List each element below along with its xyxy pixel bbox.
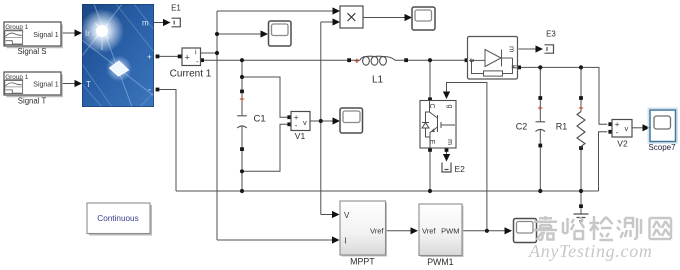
capacitor C2 [536, 122, 546, 132]
wire V1 node vertical [320, 22, 322, 215]
port Current1 - [200, 58, 204, 62]
wire ground stem [580, 191, 582, 214]
voltage sensor V1 [291, 112, 310, 142]
port PV + [156, 55, 160, 59]
svg-text:m: m [446, 139, 453, 145]
svg-text:PWM1: PWM1 [427, 257, 453, 267]
port PV - [156, 88, 160, 92]
node C2 top [538, 65, 542, 69]
node V1 minus tee [240, 169, 244, 173]
port V1 - [287, 122, 291, 126]
signal builder Signal S [4, 22, 62, 56]
powergui Continuous [87, 203, 152, 236]
svg-text:E3: E3 [546, 30, 556, 39]
arrow into scope2 [405, 14, 413, 21]
arrow into PV Ir [75, 29, 83, 36]
wire PWM1 out to scope4 [462, 230, 506, 232]
svg-text:Continuous: Continuous [97, 214, 138, 223]
port R1 top [579, 96, 583, 100]
svg-text:k: k [509, 65, 516, 69]
svg-text:Signal 1: Signal 1 [33, 32, 58, 39]
wire IGBT m to E2 [446, 150, 448, 156]
char jian [590, 216, 614, 240]
product block [340, 6, 363, 28]
arrow into Scope7 [643, 124, 651, 131]
wire C1 bottom to rail [241, 151, 243, 191]
capacitor C1 [237, 116, 247, 128]
char wang [650, 218, 672, 239]
port V2 + [608, 122, 612, 126]
wire C1 top branch [241, 60, 243, 89]
svg-text:g: g [446, 105, 453, 109]
svg-text:V: V [344, 211, 350, 220]
svg-text:a: a [468, 58, 475, 62]
char yu [563, 217, 584, 239]
wire PV + to Current1 [159, 55, 178, 57]
svg-text:-: - [148, 85, 151, 95]
arrow into MPPT I [332, 236, 340, 243]
scope Scope7 (selected) [648, 108, 677, 152]
svg-text:E1: E1 [171, 4, 181, 13]
voltage sensor V2 [612, 120, 632, 149]
svg-text:E: E [428, 140, 435, 145]
wire node x217 vertical [216, 11, 218, 240]
port C1 top [240, 90, 244, 94]
wire bottom rail [176, 190, 599, 192]
svg-text:C1: C1 [254, 114, 266, 125]
subsystem PWM1 [419, 204, 464, 267]
svg-text:V2: V2 [617, 139, 628, 149]
terminator E2 [442, 163, 451, 173]
wire PV minus down [160, 90, 177, 192]
svg-text:V1: V1 [295, 131, 306, 141]
svg-text:m: m [507, 46, 516, 52]
arrow into scope4 [505, 227, 513, 234]
wire Signal S to PV Ir [61, 32, 75, 34]
svg-text:R1: R1 [556, 122, 568, 132]
svg-text:-: - [295, 121, 298, 130]
svg-text:T: T [86, 80, 91, 89]
node C1 top [240, 58, 244, 62]
wire IGBT E to rail [429, 152, 431, 191]
port IGBT m [445, 148, 449, 152]
wire product to scope2 [363, 17, 406, 19]
wire C1 bottom node to V1 minus [242, 124, 288, 171]
svg-text:I: I [345, 237, 347, 246]
arrow into E3 [536, 45, 544, 52]
ground [574, 214, 589, 221]
port IGBT C [428, 97, 432, 101]
wire C1 body stems [241, 94, 243, 147]
svg-text:L1: L1 [372, 74, 384, 85]
wire C1 node to V1 plus [242, 77, 288, 117]
arrow into PWM1 [411, 227, 419, 234]
svg-text:Ir: Ir [85, 29, 90, 38]
terminator E1 [172, 18, 181, 27]
port C2 bottom [538, 144, 542, 148]
plus R1 [579, 106, 583, 110]
scope S2 (power) [412, 7, 435, 30]
svg-text:PWM: PWM [441, 227, 459, 236]
arrow into IGBT gate [443, 92, 450, 100]
arrow into E2 [443, 154, 450, 162]
arrow into scope3 [333, 117, 341, 124]
svg-text:MPPT: MPPT [350, 257, 375, 267]
plus C2 [538, 106, 542, 110]
wire L1 left stub [351, 59, 360, 61]
svg-text:Signal 1: Signal 1 [33, 81, 58, 88]
big flare [80, 9, 124, 53]
wire to MPPT V input [321, 214, 333, 216]
node V1 plus tee [240, 75, 244, 79]
port L1 left [347, 58, 351, 62]
svg-text:m: m [142, 19, 149, 28]
signal builder Signal T [4, 72, 62, 106]
port Current1 + [178, 55, 182, 59]
port IGBT E [428, 148, 432, 152]
wire V2 minus to rail [599, 132, 608, 191]
arrow into product in2 [333, 18, 341, 25]
node current i tee [215, 51, 219, 55]
svg-text:Signal S: Signal S [17, 47, 46, 56]
port ground [579, 204, 583, 208]
svg-text:Vref: Vref [370, 227, 384, 236]
scope S1 (current) [269, 21, 292, 46]
wire V2 v to Scope7 [632, 127, 644, 129]
svg-text:Signal T: Signal T [18, 97, 47, 106]
scope S3 (voltage) [340, 108, 363, 133]
svg-text:E2: E2 [455, 164, 466, 174]
wire R1 branch [580, 67, 582, 191]
wire Current1 i output [201, 52, 218, 54]
port L1 right [404, 58, 408, 62]
char jia [534, 216, 557, 240]
arrow into product in1 [333, 7, 341, 14]
svg-text:Current 1: Current 1 [170, 69, 212, 80]
wire Current1 - to L1 [204, 59, 348, 61]
arrow into PV T [75, 80, 83, 87]
plus C1 [240, 97, 244, 101]
wire node to IGBT C [429, 60, 431, 97]
port R1 bottom [579, 146, 583, 150]
wire diode k to output rail [521, 67, 607, 124]
terminator E3 [545, 45, 554, 53]
arrow into E1 [163, 19, 171, 26]
port C2 top [538, 96, 542, 100]
node R1 top [579, 65, 583, 69]
wire V1 v output [310, 120, 334, 122]
watermark chinese [534, 216, 671, 240]
node C2 rail [538, 189, 542, 193]
svg-text:C2: C2 [516, 122, 528, 132]
PV array block [80, 4, 154, 107]
wire to product input 2 [321, 21, 334, 23]
port V2 - [608, 130, 612, 134]
svg-text:-: - [196, 57, 199, 66]
svg-text:+: + [185, 53, 190, 63]
svg-text:C: C [428, 103, 435, 108]
subsystem MPPT [340, 201, 387, 267]
current sensor Current 1 [170, 48, 212, 80]
wire to product input 1 [217, 10, 334, 12]
port V1 + [287, 115, 291, 119]
svg-text:Vref: Vref [422, 227, 436, 236]
svg-text:v: v [303, 118, 307, 127]
wire PV m to E1 [154, 22, 164, 24]
arrow into MPPT V [332, 211, 340, 218]
wire to scope1 [217, 33, 262, 35]
port C1 bottom [240, 147, 244, 151]
scope S4 (pwm) [514, 219, 537, 243]
svg-text:v: v [625, 124, 629, 133]
wire gate from PWM [447, 83, 487, 231]
wire Signal T to PV T [61, 83, 75, 85]
node IGBT C tee [428, 58, 432, 62]
svg-text:+: + [147, 53, 152, 62]
node R1 rail [579, 189, 583, 193]
wire to MPPT I input [217, 239, 333, 241]
char ce [617, 218, 641, 239]
node scope1 tee [215, 32, 219, 36]
diode block [468, 37, 518, 80]
node PWM tee [485, 229, 489, 233]
svg-text:AnyTesting.com: AnyTesting.com [528, 241, 653, 261]
node IGBT E rail [428, 189, 432, 193]
IGBT block [420, 101, 456, 149]
resistor R1 [577, 112, 585, 149]
wire L1 right to diode a [395, 59, 465, 61]
port diode a [465, 58, 469, 62]
svg-text:-: - [616, 128, 619, 137]
svg-text:Scope7: Scope7 [648, 143, 676, 152]
port diode k [517, 66, 521, 70]
center diamond [106, 56, 132, 82]
wire MPPT Vref to PWM1 [386, 230, 412, 232]
inductor L1 [360, 56, 395, 65]
arrow into scope1 [261, 30, 269, 37]
wire diode m to E3 [519, 48, 537, 50]
node C1 rail [240, 189, 244, 193]
wire C2 branch [539, 67, 541, 191]
plus L1 [355, 59, 359, 63]
node V1 v tee [319, 119, 323, 123]
